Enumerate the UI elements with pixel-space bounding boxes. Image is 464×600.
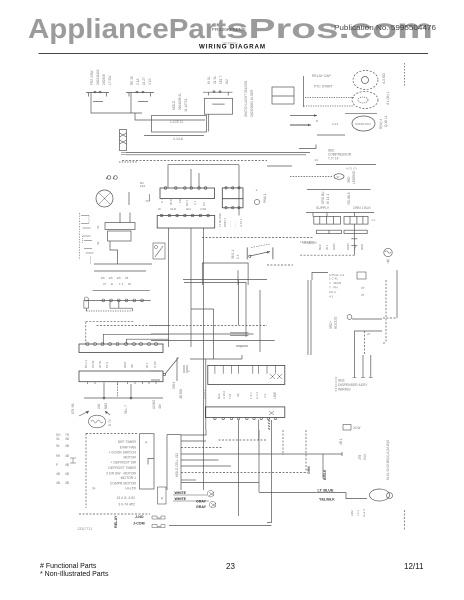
water valve solenoid xyxy=(370,489,390,501)
J1 top xyxy=(167,434,181,436)
svg-text:1E1: 1E1 xyxy=(186,207,191,211)
svg-text:BLU 3: BLU 3 xyxy=(84,359,88,368)
door switch S3 xyxy=(203,91,233,93)
dashed divider xyxy=(79,513,150,515)
svg-text:GRN: GRN xyxy=(332,243,336,250)
svg-text:EVAP FAN: EVAP FAN xyxy=(120,445,137,449)
terminal block row2b xyxy=(344,230,367,233)
connector CN1 xyxy=(120,130,127,151)
pilot circle xyxy=(254,199,259,204)
bus wire dashed xyxy=(122,160,267,162)
wire dashed to ground xyxy=(300,254,355,256)
svg-text:3E: 3E xyxy=(236,393,240,397)
svg-text:SWITCH-LIGHT 3242333: SWITCH-LIGHT 3242333 xyxy=(244,81,248,117)
svg-text:T. P. 14: T. P. 14 xyxy=(328,157,339,161)
wire v 258 low xyxy=(258,430,260,492)
wire long mid xyxy=(316,164,376,166)
svg-text:5901: 5901 xyxy=(172,382,176,389)
svg-text:4B: 4B xyxy=(65,444,69,448)
svg-text:L4 T4 4T4: L4 T4 4T4 xyxy=(300,240,314,244)
wire v 283 dashed xyxy=(282,430,284,455)
wire relay vertical xyxy=(303,76,305,107)
svg-text:1 3: 1 3 xyxy=(119,282,124,286)
disp ticks xyxy=(353,377,373,379)
bottom bus 1 xyxy=(94,263,152,265)
switch S3 labels xyxy=(207,75,229,84)
wire stub xyxy=(299,145,316,149)
wire disp v2 xyxy=(362,355,364,378)
wire dotted 311 xyxy=(86,310,132,312)
svg-text:* Non-Illustrated Parts: * Non-Illustrated Parts xyxy=(40,571,109,578)
svg-text:51 S: 51 S xyxy=(105,362,109,368)
svg-text:DISPENSER ASSY: DISPENSER ASSY xyxy=(338,383,368,387)
svg-text:4 T-5 3: 4 T-5 3 xyxy=(203,389,207,399)
wire disp v1 xyxy=(354,355,356,378)
wire h dashed 325 xyxy=(151,325,267,327)
svg-text:T34: T34 xyxy=(228,393,232,399)
J1 wire 1 xyxy=(181,430,206,435)
svg-text:DEF TIMER: DEF TIMER xyxy=(118,440,137,444)
wire arrow lower xyxy=(290,124,311,126)
svg-text:240508: 240508 xyxy=(102,74,106,85)
svg-text:- - - -: - - - - xyxy=(229,221,233,228)
bracket dashed xyxy=(335,377,337,392)
svg-text:T - PH: T - PH xyxy=(329,286,338,290)
J1 left rail xyxy=(166,435,168,491)
K1 leads up xyxy=(119,213,121,223)
wire dashed low left xyxy=(267,264,293,266)
svg-text:MOLD: MOLD xyxy=(172,100,176,110)
bus top wire xyxy=(190,358,242,360)
svg-text:P9 W: P9 W xyxy=(91,360,95,368)
svg-text:NB2: NB2 xyxy=(104,403,108,409)
svg-text:34-R: 34-R xyxy=(170,207,176,211)
svg-text:3 0-74 4P2: 3 0-74 4P2 xyxy=(118,503,135,507)
CS2 drop b dashed xyxy=(117,384,119,398)
cap marks xyxy=(184,365,187,373)
wire h 340 xyxy=(151,340,275,342)
labels above xyxy=(103,282,131,286)
svg-text:SUPPLY: SUPPLY xyxy=(316,206,330,210)
svg-text:GRAY: GRAY xyxy=(196,505,207,509)
svg-text:4W: 4W xyxy=(158,404,162,409)
arrow to heater a xyxy=(79,411,89,416)
svg-text:94: 94 xyxy=(56,444,60,448)
svg-text:PTC START: PTC START xyxy=(314,85,333,89)
legend bracket xyxy=(70,458,76,463)
svg-text:11 2T: 11 2T xyxy=(142,77,146,85)
svg-text:GRD BU: GRD BU xyxy=(321,191,325,204)
svg-text:W 1: W 1 xyxy=(145,362,149,368)
svg-text:Publication No. 5995504476: Publication No. 5995504476 xyxy=(334,23,436,32)
svg-text:41 12T21: 41 12T21 xyxy=(184,98,188,112)
wire v 238 xyxy=(238,280,240,325)
IM1 X mark xyxy=(269,411,274,415)
svg-text:JB 308: JB 308 xyxy=(179,389,183,399)
underline white2 xyxy=(173,500,209,502)
wire dashed valve down xyxy=(403,510,405,530)
DT1 X marks xyxy=(270,374,282,379)
wire v 238 low xyxy=(238,430,240,516)
svg-text:3B: 3B xyxy=(130,364,134,368)
svg-text:L1: L1 xyxy=(372,218,376,222)
plug squiggle a xyxy=(152,516,165,519)
switch S2 labels xyxy=(130,76,152,85)
double bus v a xyxy=(307,280,309,355)
svg-text:240241101: 240241101 xyxy=(96,69,100,85)
terminal block row1a xyxy=(314,216,341,224)
svg-text:2-DR SW - MOTOR: 2-DR SW - MOTOR xyxy=(106,471,136,475)
label column lt blu xyxy=(218,213,243,227)
feeder wire xyxy=(93,290,150,292)
svg-text:3-16 1: 3-16 1 xyxy=(239,218,243,227)
svg-text:3 1C2: 3 1C2 xyxy=(222,391,226,399)
mold label xyxy=(172,93,188,112)
svg-text:WIRING: WIRING xyxy=(338,388,351,392)
wire h 339 xyxy=(127,339,170,344)
icemaker strip IM1 xyxy=(205,407,284,418)
wire h 334 xyxy=(151,333,254,335)
svg-text:LT SW: LT SW xyxy=(108,76,112,85)
J1 wire 6 xyxy=(181,465,231,467)
main double bus left xyxy=(203,359,205,490)
wire h 332.8 xyxy=(230,332,248,334)
plug X b xyxy=(209,502,216,508)
wire under lamp box xyxy=(144,135,204,137)
J1 wire 9 xyxy=(181,482,259,484)
wire v 213 xyxy=(213,309,215,359)
svg-text:E5: E5 xyxy=(101,276,105,280)
svg-text:# Functional Parts: # Functional Parts xyxy=(40,563,97,570)
svg-text:43: 43 xyxy=(96,225,100,229)
door switch S2 xyxy=(126,92,154,94)
thermostat blade xyxy=(250,252,270,257)
svg-text:3?: 3? xyxy=(361,286,365,290)
terminal strip TB3 xyxy=(157,216,215,229)
right stub xyxy=(383,342,386,344)
svg-text:1E1 T: 1E1 T xyxy=(219,76,223,84)
svg-text:RELAY: RELAY xyxy=(114,515,118,528)
terminal row circles xyxy=(87,299,151,301)
svg-text:12/11: 12/11 xyxy=(404,562,424,571)
svg-text:B/BLK: B/BLK xyxy=(323,469,327,480)
lamp housing box xyxy=(152,116,207,133)
terminal board TB1 xyxy=(160,188,215,199)
svg-text:4 (7) (7): 4 (7) (7) xyxy=(346,167,357,171)
bottom long wire xyxy=(183,279,267,281)
svg-text:W 30: W 30 xyxy=(169,198,173,205)
thermostat top edge xyxy=(251,244,270,248)
svg-text:1 4: 1 4 xyxy=(236,254,240,259)
fuse lead xyxy=(85,308,87,311)
small box xyxy=(357,272,366,279)
svg-text:20 W: 20 W xyxy=(353,426,360,430)
svg-text:2-14-6: 2-14-6 xyxy=(173,137,183,141)
condenser fan motor M3 xyxy=(352,116,375,131)
wire stub v a xyxy=(109,300,111,308)
door switch S1 xyxy=(86,92,109,94)
svg-text:A+2 4: A+2 4 xyxy=(362,509,366,517)
TB1 labels xyxy=(160,198,206,206)
wire v 168 xyxy=(168,228,170,347)
legend dashed border left xyxy=(85,433,87,508)
overload OL xyxy=(334,174,344,180)
wire dashed stub 162 xyxy=(119,161,137,163)
wire v 191 xyxy=(190,228,192,347)
svg-text:4B: 4B xyxy=(65,472,69,476)
J1 wire 2 xyxy=(181,440,206,442)
svg-text:R(W) 4: R(W) 4 xyxy=(379,119,383,129)
legend box step xyxy=(148,459,154,465)
wire dotted to compressor xyxy=(305,97,354,99)
svg-text:E 74: E 74 xyxy=(108,419,112,426)
svg-text:W: W xyxy=(158,207,161,211)
J1 wire 8 xyxy=(181,479,196,481)
DT1 internal pins xyxy=(215,365,275,373)
defrost timer box DT1 xyxy=(208,365,285,384)
svg-text:4 1: 4 1 xyxy=(329,295,334,299)
svg-text:4B: 4B xyxy=(65,454,69,458)
svg-text:36 L-7: 36 L-7 xyxy=(124,405,128,414)
svg-text:J78: J78 xyxy=(358,455,362,460)
terminal circle xyxy=(347,315,352,320)
wire dashed h 440 xyxy=(219,439,267,441)
IM1 terminals xyxy=(214,417,277,419)
defrost thermostat bar L xyxy=(246,247,248,259)
valve labels xyxy=(350,509,366,517)
bottom long wire xyxy=(169,525,272,527)
CS2 drop c xyxy=(130,384,132,398)
svg-text:ORN: ORN xyxy=(346,243,350,250)
svg-text:RED: RED xyxy=(360,243,364,250)
svg-text:+: + xyxy=(256,189,258,193)
TB3 top labels xyxy=(158,207,207,211)
wire dashed v 306 xyxy=(305,430,307,473)
left edge stubs xyxy=(151,370,160,372)
wire v 203 xyxy=(203,228,205,359)
svg-text:P: P xyxy=(56,463,58,467)
svg-text:LT. BLUE: LT. BLUE xyxy=(318,488,334,492)
switch-light part label xyxy=(244,81,254,117)
legend dashed border top xyxy=(86,432,137,434)
svg-text:WHT: WHT xyxy=(123,361,127,368)
compressor overload M1 (dashed ellipse) xyxy=(353,71,378,90)
svg-text:1 C 41: 1 C 41 xyxy=(329,277,338,281)
J1 right rail xyxy=(180,435,182,491)
svg-text:4B 1: 4B 1 xyxy=(339,438,343,445)
svg-text:4 L (M) 1: 4 L (M) 1 xyxy=(386,91,390,105)
connector strip CS2 xyxy=(79,371,163,382)
defrost thermostat bar R xyxy=(272,247,274,259)
svg-text:9H: 9H xyxy=(56,454,61,458)
svg-text:COMPR MOTOR: COMPR MOTOR xyxy=(110,481,137,485)
wire dashed 325 xyxy=(97,325,170,327)
svg-text:WHITE: WHITE xyxy=(175,497,187,501)
door switch ladder xyxy=(79,213,81,260)
svg-text:D: D xyxy=(316,119,319,123)
IM1 drop c xyxy=(267,420,269,430)
wire disp v3 xyxy=(370,355,372,378)
svg-text:4 W1: 4 W1 xyxy=(200,207,207,211)
CS2 drop a xyxy=(103,384,105,398)
TB3 terminals xyxy=(160,214,209,217)
svg-text:SEE: SEE xyxy=(338,379,346,383)
wire vertical main xyxy=(238,165,240,216)
svg-text:25: 25 xyxy=(125,276,129,280)
compressor motor M2 (dashed ellipse) xyxy=(352,92,378,109)
svg-text:+3 1: +3 1 xyxy=(356,510,360,516)
wire v 323 xyxy=(322,454,324,479)
bus wire upper xyxy=(126,152,310,154)
underline white1 xyxy=(173,494,207,496)
svg-text:HI-LTR: HI-LTR xyxy=(125,487,136,491)
svg-text:2 1A: 2 1A xyxy=(136,78,140,85)
wire lamp box down xyxy=(208,114,210,131)
wire S1 drop xyxy=(91,93,142,114)
svg-text:FRZ 1/3W: FRZ 1/3W xyxy=(90,70,94,85)
svg-text:4B: 4B xyxy=(65,463,69,467)
svg-text:E5: E5 xyxy=(117,276,121,280)
wire v 246 xyxy=(245,282,247,337)
label see compressor xyxy=(328,149,352,161)
connector strip CS1 xyxy=(79,344,163,353)
arrow to heater b xyxy=(105,411,110,415)
wire v 260 xyxy=(259,290,261,352)
terminal block row1b xyxy=(344,216,368,224)
svg-text:RELAY CAP: RELAY CAP xyxy=(312,74,331,78)
wire h 335.7 xyxy=(230,335,248,337)
svg-text:WHITE: WHITE xyxy=(175,491,187,495)
terminal pair labels xyxy=(101,276,129,280)
wire down from block xyxy=(353,224,355,255)
wire corner 331 xyxy=(355,331,383,355)
svg-text:J5: J5 xyxy=(160,497,164,501)
svg-text:AU 3: AU 3 xyxy=(329,290,336,294)
svg-text:3RD+: 3RD+ xyxy=(329,321,333,329)
overload OL dashed lead xyxy=(290,176,333,178)
svg-text:YEL: YEL xyxy=(353,244,357,250)
svg-text:S 1B: S 1B xyxy=(153,361,157,368)
bus wire lower xyxy=(126,154,306,156)
svg-text:W SL: W SL xyxy=(207,76,211,84)
svg-text:34: 34 xyxy=(56,437,60,441)
svg-text:21 SL: 21 SL xyxy=(213,75,217,84)
plug X a xyxy=(207,491,214,497)
wire h 308 xyxy=(110,307,132,309)
svg-text:ORN 1: ORN 1 xyxy=(223,218,227,228)
svg-text:X44: X44 xyxy=(363,454,367,460)
wire top feed xyxy=(168,165,239,188)
svg-text:C3: C3 xyxy=(202,202,206,206)
wire stub left xyxy=(267,165,292,167)
svg-text:4B: 4B xyxy=(56,481,60,485)
wire dashed mid xyxy=(202,237,313,239)
wire h 309 xyxy=(191,308,214,310)
wire stub 346 xyxy=(236,345,248,347)
svg-text:2-14: 2-14 xyxy=(332,122,338,126)
wire dashed v xyxy=(364,331,366,355)
legend right box xyxy=(140,434,155,489)
svg-text:NC1: NC1 xyxy=(185,200,189,206)
svg-text:Q 16 L1: Q 16 L1 xyxy=(384,115,388,127)
svg-text:42: 42 xyxy=(96,241,100,245)
relay K1 top bar xyxy=(105,223,135,230)
TB2 terminals xyxy=(225,187,240,209)
wire corner xyxy=(312,273,328,281)
svg-text:3164038 SL: 3164038 SL xyxy=(178,93,182,110)
wire arrows from CN1 xyxy=(121,153,126,155)
svg-text:37: 37 xyxy=(367,332,371,336)
wire h 282 xyxy=(184,282,246,284)
svg-text:1-1CE 11: 1-1CE 11 xyxy=(170,120,183,124)
DT1 pin labels xyxy=(203,389,267,399)
labels under terminals xyxy=(318,243,364,250)
wire stub v b xyxy=(118,300,120,308)
svg-text:4-3 GD: 4-3 GD xyxy=(382,73,386,84)
svg-text:ROTATE: ROTATE xyxy=(334,317,338,329)
svg-text:WIRING DIAGRAM: WIRING DIAGRAM xyxy=(199,44,265,51)
svg-text:W.SL.SI #2.BK(V).A.(M.W)S: W.SL.SI #2.BK(V).A.(M.W)S xyxy=(386,440,390,480)
wire dashed 321 xyxy=(86,321,135,323)
svg-text:W2: W2 xyxy=(225,79,229,84)
wire arrow upper xyxy=(290,115,317,117)
svg-text:MOLD CELL J12: MOLD CELL J12 xyxy=(175,453,179,477)
svg-text:37: 37 xyxy=(337,175,341,179)
wire h 334 xyxy=(103,334,169,344)
wire stub a xyxy=(190,169,192,188)
svg-text:T-4 1: T-4 1 xyxy=(249,392,253,399)
legend pairs col xyxy=(56,433,70,485)
IM1 drop d dashed xyxy=(269,418,271,431)
wire dashed v 85 xyxy=(85,322,87,345)
label see dispenser xyxy=(338,379,368,392)
wire right 319 xyxy=(352,318,382,320)
svg-text:GRN: GRN xyxy=(307,466,311,474)
svg-text:A2/M2: A2/M2 xyxy=(152,400,156,409)
svg-text:- - -: - - - xyxy=(234,222,238,227)
small box xyxy=(343,425,351,431)
svg-text:DEFROST TIMER: DEFROST TIMER xyxy=(108,466,136,470)
thermostat lead xyxy=(176,358,178,382)
svg-text:FRS26KF6EM5: FRS26KF6EM5 xyxy=(212,27,246,33)
wire long lower xyxy=(307,189,371,191)
TB1 terminals xyxy=(164,187,207,190)
bracket xyxy=(146,194,150,201)
svg-text:LT BLU/W: LT BLU/W xyxy=(218,213,222,227)
wire dotted lower xyxy=(304,105,355,107)
svg-text:+ DEFROST SW: + DEFROST SW xyxy=(111,461,137,465)
connector box J5 xyxy=(158,487,167,504)
svg-text:BLK: BLK xyxy=(217,393,221,399)
relay K1 body xyxy=(108,231,132,241)
J1 wire 4 xyxy=(181,453,342,455)
wire v 132 xyxy=(131,308,133,311)
svg-text:678 YB: 678 YB xyxy=(71,404,75,414)
svg-text:E: E xyxy=(111,282,113,286)
svg-text:3: 3 xyxy=(240,345,242,349)
thermostat switch blade xyxy=(165,358,179,375)
wire S2 drop xyxy=(130,93,132,114)
wire lamp right xyxy=(128,192,130,205)
J1 wire 3 dashed xyxy=(181,447,223,449)
svg-text:BLK: BLK xyxy=(318,244,322,250)
ground symbol xyxy=(384,248,392,256)
svg-text:R2: R2 xyxy=(140,181,144,185)
switch S1 labels xyxy=(90,69,112,85)
wire S1 to bus xyxy=(135,113,205,120)
wire lt blue xyxy=(259,493,367,499)
wire right edge vert xyxy=(396,270,398,318)
